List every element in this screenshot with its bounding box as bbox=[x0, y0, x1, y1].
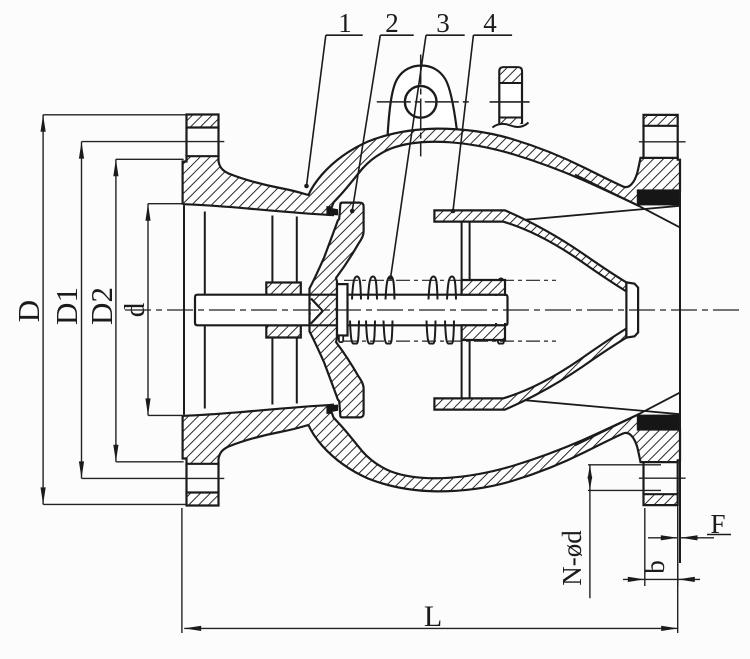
left flange rim top bbox=[187, 115, 219, 128]
diffuser support rib lines bbox=[505, 206, 680, 222]
diffuser cone lower wall bbox=[434, 329, 626, 410]
left flange bolt band edges bbox=[185, 128, 187, 157]
diffuser bushing bottom bbox=[462, 325, 505, 340]
valve body lower wall section bbox=[183, 405, 680, 492]
boss centerline bbox=[490, 101, 530, 103]
dimension d bbox=[147, 204, 149, 416]
dimension D2 bbox=[115, 159, 117, 462]
right flange rim top bbox=[644, 115, 678, 126]
spring coil centerline upper bbox=[344, 279, 556, 281]
spring end hook bbox=[339, 336, 343, 343]
dimension b flange thickness bbox=[644, 508, 646, 586]
disc / poppet bbox=[310, 203, 364, 418]
svg-text:D: D bbox=[11, 300, 46, 322]
disc hub notch bbox=[311, 299, 323, 324]
svg-text:4: 4 bbox=[483, 8, 497, 38]
eye hole centerlines bbox=[377, 101, 470, 103]
inlet bore silhouette lines bbox=[183, 205, 185, 414]
dimension D1 bbox=[81, 142, 83, 479]
boss hatched top band bbox=[500, 68, 521, 83]
right flange rim bottom bbox=[644, 494, 678, 505]
left flange rim bottom bbox=[187, 493, 219, 506]
dimension L overall length bbox=[181, 508, 183, 633]
spring retainer washer bbox=[337, 284, 348, 335]
part callout 1 bbox=[326, 34, 363, 36]
valve body upper wall section bbox=[183, 129, 680, 216]
boss hatched bottom band bbox=[500, 118, 521, 125]
svg-text:b: b bbox=[640, 560, 670, 574]
spring end partial coils bbox=[496, 323, 505, 344]
part callout 3 bbox=[426, 34, 465, 36]
svg-text:D1: D1 bbox=[49, 287, 84, 325]
right flange raised face line bbox=[679, 160, 681, 563]
svg-text:N-ød: N-ød bbox=[557, 530, 587, 586]
disc guide bushing bottom bbox=[266, 325, 301, 337]
right flange bolt band edges bbox=[642, 126, 644, 158]
part callout 4 bbox=[473, 34, 512, 36]
shaft / stem bbox=[195, 295, 508, 326]
spring coils below shaft bbox=[350, 321, 359, 344]
disc guide bushing top bbox=[266, 283, 301, 295]
outlet seal block bottom (black) bbox=[638, 415, 680, 430]
lifting eye lug bbox=[387, 66, 457, 141]
dimension N-ød bolt hole bbox=[589, 465, 591, 599]
diffuser hub tube walls bbox=[461, 222, 463, 280]
main centerline bbox=[125, 309, 742, 311]
spring coils above shaft bbox=[352, 277, 361, 300]
diffuser bushing top bbox=[462, 280, 505, 295]
lifting eye hole bbox=[405, 86, 437, 118]
spring coil centerline lower bbox=[344, 340, 556, 342]
right flange bolt hole centerlines bbox=[639, 141, 686, 143]
part callout 2 bbox=[380, 34, 413, 36]
seat seal ring left bottom (black) bbox=[328, 405, 339, 413]
svg-text:3: 3 bbox=[436, 8, 450, 38]
boss break line bbox=[492, 123, 528, 128]
shaft lines over disc hub bbox=[310, 294, 338, 296]
seat seal ring left top (black) bbox=[328, 207, 339, 215]
svg-text:1: 1 bbox=[338, 8, 352, 38]
left flange bolt hole centerlines bbox=[82, 141, 225, 143]
dimension F raised face bbox=[648, 537, 678, 539]
svg-text:L: L bbox=[424, 600, 442, 633]
dimension D bbox=[42, 115, 44, 505]
diffuser tail edge bbox=[626, 282, 638, 337]
svg-text:2: 2 bbox=[385, 8, 399, 38]
disc guide rib lines bbox=[271, 216, 273, 283]
boss detail body bbox=[499, 67, 522, 124]
outlet seal block top (black) bbox=[638, 191, 680, 206]
outlet cone silhouette lines bbox=[575, 175, 638, 206]
svg-text:D2: D2 bbox=[84, 287, 119, 325]
diffuser cone upper wall bbox=[434, 210, 626, 291]
